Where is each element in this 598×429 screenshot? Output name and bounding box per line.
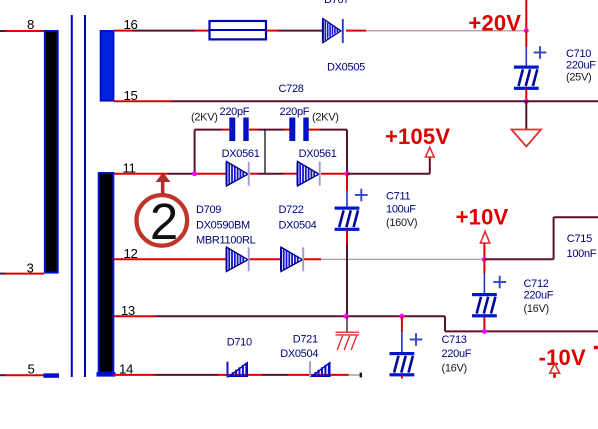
+105V arrow [426,147,435,157]
node C712 bottom [482,329,487,334]
wire +20V to C710 [525,31,527,66]
label D722 [279,204,317,232]
svg-text:MBR1100RL: MBR1100RL [196,235,256,247]
node +10V junction [482,257,487,262]
capacitor C710 [514,66,539,90]
wire 16 segment b [267,30,323,32]
label C712 value [524,278,554,315]
svg-text:D707: D707 [324,0,349,6]
wire 16 segment c [346,30,526,32]
wire to +105V arrow [347,157,430,174]
wire C711 top lead [346,174,348,207]
wire 16 segment a [114,30,209,32]
capacitor C713 [390,352,415,376]
clipped mark at right edge [594,346,598,349]
wire pin 5 [0,374,44,376]
svg-text:D721: D721 [293,334,318,346]
capacitor C-snub1 220pF [232,118,246,142]
svg-text:3: 3 [27,260,34,275]
capacitor C-snub2 220pF [292,118,306,142]
svg-text:D710: D710 [227,336,252,348]
svg-text:(25V): (25V) [566,71,591,83]
callout circle 2 [137,193,188,250]
svg-text:DX0504: DX0504 [279,220,317,232]
node C713 [399,314,404,319]
diode D721 [310,362,330,378]
svg-text:(16V): (16V) [524,303,549,315]
chassis ground symbol [336,316,360,350]
svg-text:-10V: -10V [539,345,586,370]
svg-text:C713: C713 [442,334,467,346]
wire 11 [114,173,345,175]
diode D710 [228,362,248,378]
svg-text:100nF: 100nF [567,248,597,260]
wire 13 [114,316,598,331]
C710 polarity plus [534,46,547,59]
svg-text:(2KV): (2KV) [191,112,218,124]
svg-text:5: 5 [28,362,35,377]
svg-text:+20V: +20V [468,10,521,35]
svg-text:C711: C711 [386,191,410,203]
wire snubber right vertical [346,130,348,174]
wire from top edge to +20V node [525,0,527,30]
wire snubber left vertical [194,130,196,174]
svg-text:+10V: +10V [456,204,509,229]
node +20V junction [524,28,529,33]
label C710 value [566,48,596,83]
callout arrow [156,172,171,196]
diode D707 [323,19,343,43]
diode D708b DX0561 [298,162,320,186]
ground symbol (signal gnd) [512,101,542,146]
svg-text:DX0590BM: DX0590BM [196,220,250,232]
wire C710 to line15 [525,89,527,101]
svg-text:220uF: 220uF [442,348,472,360]
winding secondary-top (pins 16-15) [101,31,114,101]
C711 polarity plus [355,189,368,202]
wire 12 [114,258,484,260]
svg-text:DX0561: DX0561 [222,148,260,160]
svg-text:C710: C710 [566,48,591,60]
wire C711 bottom lead [346,231,348,317]
wire pin 8 [0,30,45,32]
wire pin 3 [0,273,44,275]
svg-text:220pF: 220pF [220,106,250,118]
wire C713 top lead [401,316,403,352]
+10V arrow [480,231,489,259]
wire snubber middle vertical [264,130,266,174]
svg-text:220uF: 220uF [524,290,554,302]
svg-text:220uF: 220uF [566,60,596,72]
svg-text:100uF: 100uF [386,204,416,216]
wire 15 [114,100,598,102]
svg-text:(160V): (160V) [386,217,417,229]
svg-text:(2KV): (2KV) [312,112,339,124]
winding bottom termination [97,372,116,377]
node C711/gnd [344,314,349,319]
node +105V junction [345,171,350,176]
label D709 [196,204,256,247]
svg-text:C712: C712 [524,278,549,290]
wire C712 bottom lead [483,318,485,332]
svg-text:8: 8 [27,17,34,32]
wire C712 top lead [483,259,485,293]
svg-text:C715: C715 [567,233,592,245]
label C711 value [386,191,417,230]
svg-text:DX0561: DX0561 [299,148,337,160]
svg-text:+105V: +105V [385,124,450,149]
-10V arrow [550,364,560,378]
wire end tick [360,373,362,378]
node snubber left [192,171,197,176]
capacitor C711 [335,207,360,231]
wire 12 to C715 step [484,217,598,259]
core line left [71,15,73,377]
fuse/filter FB (rectangle) [209,21,267,39]
C712 polarity plus [493,276,506,289]
svg-text:C728: C728 [279,83,304,95]
svg-text:D722: D722 [279,204,304,216]
svg-text:2: 2 [150,193,178,250]
wire C713 bottom stub [401,376,403,379]
svg-text:220pF: 220pF [280,106,310,118]
label C713 value [442,334,472,375]
core line right [84,15,86,377]
winding stub at pin 5 [44,373,60,378]
C713 polarity plus [410,333,423,346]
wire 14 [114,374,360,376]
svg-text:D709: D709 [196,204,221,216]
winding secondary-bottom (pins 11-14) [99,173,114,373]
diode D722 [281,247,303,271]
diode D709 [227,247,249,271]
svg-text:DX0504: DX0504 [280,348,318,360]
winding primary-left (pins 8-3) [45,31,58,273]
svg-text:(16V): (16V) [442,363,467,375]
diode D708a DX0561 [227,162,249,186]
capacitor C712 [472,293,497,317]
wire snubber top [195,129,347,131]
svg-text:DX0505: DX0505 [327,62,365,74]
node on line 15 [524,99,529,104]
label C715 value [567,233,597,260]
